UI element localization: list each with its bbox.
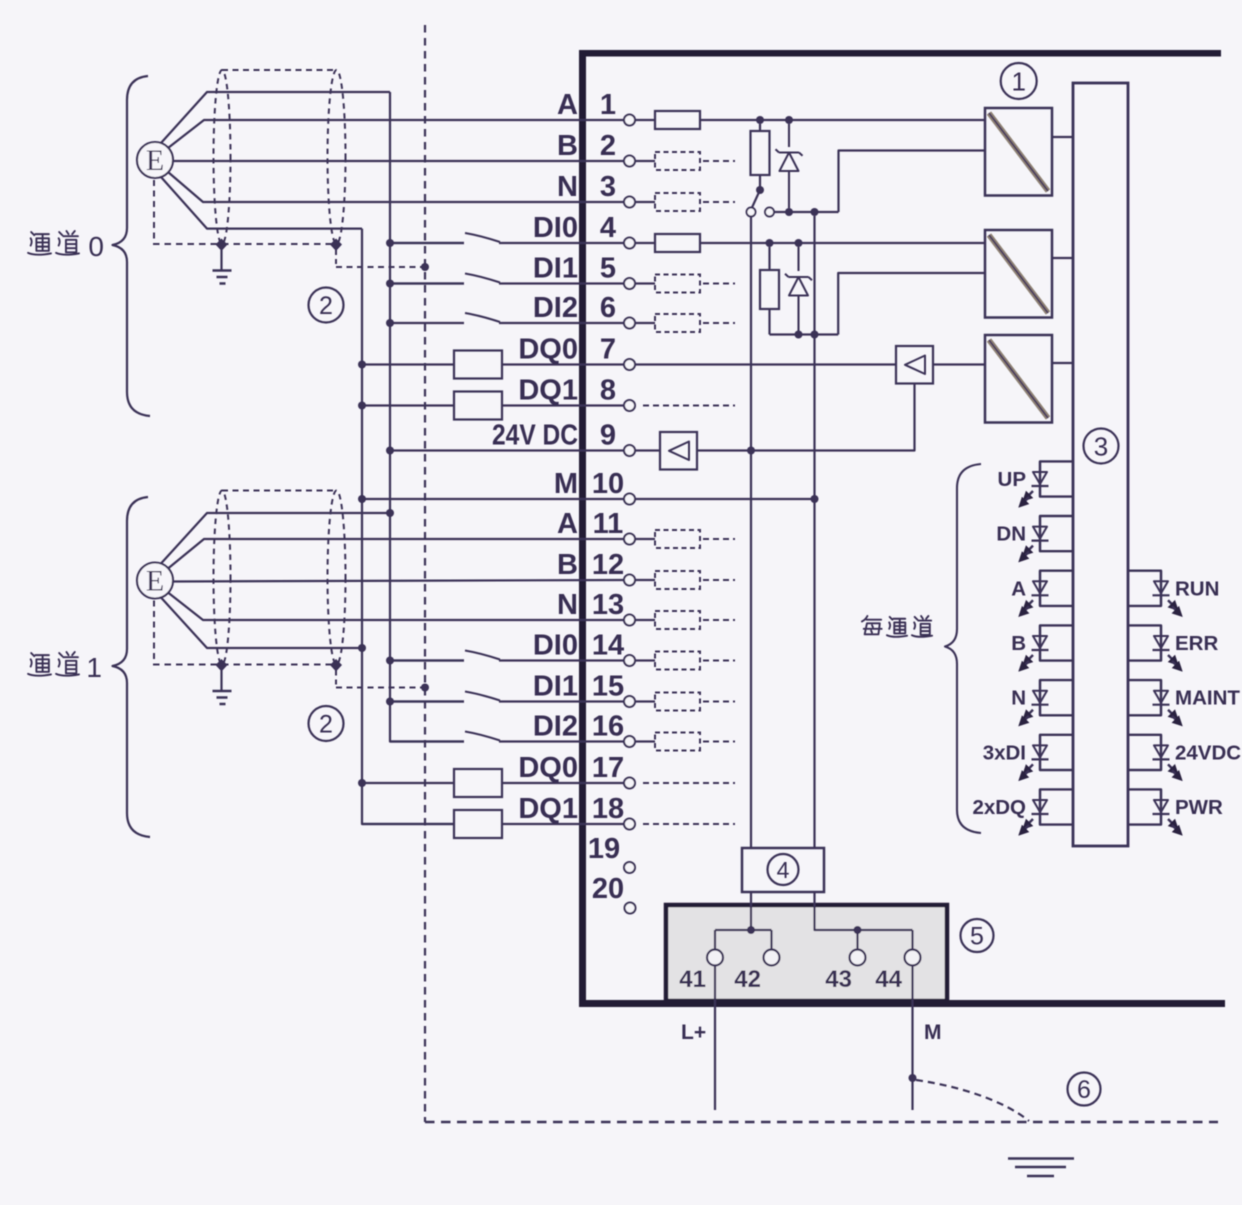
cable shield top dashed line (ch1) [222, 490, 337, 492]
svg-text:2xDQ: 2xDQ [972, 796, 1026, 819]
ground lead (ch1) [220, 671, 222, 691]
terminating resistor R2 ch0-DI [768, 247, 770, 270]
cable shield top dashed line (ch0) [222, 69, 337, 71]
svg-text:5: 5 [600, 253, 616, 285]
pin 19 terminal [624, 862, 635, 873]
jumper contact left ch0 [747, 208, 756, 217]
wire L+ lead [714, 966, 716, 1111]
pin 9 terminal [624, 445, 635, 456]
junction pin1/zener1 [785, 116, 793, 124]
junction common/rail2 [811, 208, 819, 216]
svg-text:DI1: DI1 [533, 671, 578, 703]
LED 3xDI (left) [1040, 735, 1073, 770]
junction supply rail y=283.5 [386, 280, 394, 288]
pin 7 terminal [624, 359, 635, 370]
circled 2 (ch0 shield note) [309, 288, 344, 323]
wire network2 to isolator2 lower input [838, 273, 985, 335]
brace per-channel LEDs [945, 464, 981, 833]
input resistor pin 11 (dashed box) [635, 538, 655, 540]
svg-text:DI2: DI2 [533, 292, 578, 324]
cable shield ellipse left (ch0) [214, 70, 231, 244]
circled 1 (isolation note) [1001, 63, 1037, 99]
svg-text:L+: L+ [681, 1021, 706, 1044]
ground symbol (ch1) [213, 691, 232, 704]
dashed shield link vertical (ch1) [335, 671, 337, 688]
dashed shield-bus vertical line [424, 25, 426, 1122]
svg-text:DQ1: DQ1 [518, 793, 578, 825]
junction shield link / bus (ch0) [421, 263, 429, 271]
svg-text:1: 1 [86, 652, 102, 683]
pin 17 terminal [624, 778, 635, 789]
svg-text:44: 44 [875, 966, 902, 993]
svg-text:DI2: DI2 [533, 711, 578, 743]
svg-text:N: N [1011, 687, 1026, 710]
svg-text:0: 0 [88, 231, 104, 262]
pin 12 terminal [624, 575, 635, 586]
junction pin4/R2 [766, 239, 774, 247]
dashed shield link horizontal (ch0) [336, 266, 425, 268]
svg-text:3xDI: 3xDI [983, 741, 1026, 764]
svg-text:N: N [557, 171, 578, 203]
svg-text:M: M [554, 468, 578, 500]
wire encoder1 return fan [161, 598, 362, 649]
LED RUN (right) [1128, 571, 1161, 606]
junction supply rail y=660.5 [386, 657, 394, 665]
pin 18 terminal [624, 819, 635, 830]
zener diode Z2 [797, 247, 799, 271]
switch contact DI0 ch0 [390, 242, 464, 244]
LED 24VDC (right) [1128, 735, 1161, 770]
output driver DQ0 (triangle box) [896, 346, 933, 384]
shield tap diamond right (ch1) [330, 659, 342, 672]
junction zener2 bottom [795, 331, 803, 339]
input resistor pin 3 (dashed box) [635, 201, 655, 203]
ground lead (ch0) [220, 250, 222, 270]
label 通道 0 [28, 232, 51, 255]
terminal 41 [707, 950, 723, 966]
junction zener1 bottom [785, 208, 793, 216]
wire encoder1 A to pin11 [168, 539, 624, 569]
pin 8 terminal [624, 400, 635, 411]
svg-text:15: 15 [592, 671, 624, 703]
svg-text:1: 1 [600, 89, 616, 121]
label 每通道 [862, 616, 882, 634]
junction pin1/R-term [756, 116, 764, 124]
LED PWR (right) [1128, 789, 1161, 824]
pin 14 terminal [624, 655, 635, 666]
pin 11 terminal [624, 534, 635, 545]
svg-text:17: 17 [592, 752, 624, 784]
input resistor pin 14 (dashed box) [635, 659, 655, 661]
svg-text:ERR: ERR [1175, 632, 1218, 655]
wire encoder1 B to pin12 [173, 580, 624, 582]
svg-text:B: B [557, 549, 578, 581]
wire isolator1 output [1052, 136, 1073, 138]
wire 24VDC row (pin9) outside [390, 449, 624, 451]
dashed stub pin 18 [643, 823, 735, 825]
shield tap diamond left (ch0) [216, 239, 228, 252]
input resistor pin 2 (dashed box) [635, 160, 655, 162]
svg-text:7: 7 [600, 334, 616, 366]
input resistor pin 12 (dashed box) [635, 579, 655, 581]
shield tap diamond left (ch1) [216, 659, 228, 672]
svg-text:9: 9 [600, 420, 616, 452]
svg-text:5: 5 [970, 923, 984, 951]
wire encoder1 supply fan [161, 513, 390, 564]
junction pin10/rail2 [811, 495, 819, 503]
shield tap diamond right (ch0) [330, 239, 342, 252]
wire pin7 internal [635, 363, 896, 365]
svg-text:13: 13 [592, 589, 624, 621]
svg-text:PWR: PWR [1175, 796, 1223, 819]
junction pin9/rail1 [747, 447, 755, 455]
output driver 24VDC (triangle box) [660, 432, 697, 470]
LED N (left) [1040, 680, 1073, 715]
switch contact DI1 ch0 [390, 282, 464, 284]
24V supply rail (vertical) [390, 92, 464, 742]
switch contact DI0 ch1 [390, 659, 464, 661]
wire encoder1 N to pin13 [168, 593, 624, 621]
dashed stub pin 17 [643, 782, 735, 784]
wire encoder0 return fan [161, 177, 362, 229]
isolation barrier block 1 [985, 108, 1052, 196]
terminal 42 [764, 950, 780, 966]
wire pin1 internal to isolator 1 [700, 119, 985, 121]
wire network2 bottom bus [770, 333, 839, 335]
zener diode Z1 ch0 [788, 124, 790, 147]
LED 2xDQ (left) [1040, 789, 1073, 824]
junction return rail y=364.5 [358, 361, 366, 369]
input resistor pin 6 (dashed box) [635, 322, 655, 324]
input resistor pin 1 (solid) [635, 119, 655, 121]
pin 10 terminal [624, 494, 635, 505]
pin 16 terminal [624, 736, 635, 747]
encoder E (channel 1) [137, 563, 173, 599]
svg-text:18: 18 [592, 793, 624, 825]
encoder E (channel 0) [137, 142, 173, 178]
svg-text:M: M [924, 1021, 942, 1044]
circled 5 (terminal block note) [961, 919, 994, 952]
pin 6 terminal [624, 318, 635, 329]
wire encoder0 A to pin1 [168, 120, 624, 148]
svg-text:10: 10 [592, 468, 624, 500]
LED MAINT (right) [1128, 680, 1161, 715]
svg-text:1: 1 [1011, 66, 1025, 96]
shield dashed bottom line (ch1) [153, 664, 340, 666]
svg-text:UP: UP [998, 468, 1026, 491]
label 通道 1 [28, 653, 51, 676]
wire encoder0 supply fan [161, 92, 390, 143]
wire block4 to 43/44 split [815, 892, 913, 949]
internal rail 1 (24V) to block4 [750, 217, 752, 849]
svg-text:42: 42 [734, 966, 761, 993]
LED ERR (right) [1128, 625, 1161, 660]
svg-text:E: E [146, 565, 164, 598]
terminal 44 [905, 950, 921, 966]
junction return rail y=405.5 [358, 402, 366, 410]
shield dashed bottom line (ch0) [153, 243, 340, 245]
svg-text:2: 2 [319, 292, 333, 320]
wire M row (pin10) outside [362, 498, 624, 500]
svg-text:4: 4 [777, 857, 790, 883]
cable shield ellipse right (ch0) [328, 70, 346, 244]
wire pin9 to driver supply riser [697, 384, 915, 451]
load resistor DQ1 ch0 [362, 404, 454, 406]
dashed shield-bus bottom line [425, 1121, 1218, 1123]
svg-text:20: 20 [592, 873, 624, 905]
load resistor DQ0 ch1 [362, 782, 454, 784]
svg-text:6: 6 [600, 292, 616, 324]
LED UP (left) [1040, 461, 1073, 496]
dashed lead below encoder0 [153, 180, 155, 242]
circled 3 (logic block) [1084, 429, 1119, 464]
LED B (left) [1040, 625, 1073, 660]
terminating resistor R-term ch0 [759, 124, 761, 131]
earth symbol bottom [1008, 1159, 1074, 1177]
power terminal block 5 (gray) [666, 905, 947, 1001]
ground symbol (ch0) [213, 271, 232, 284]
pin 2 terminal [624, 156, 635, 167]
junction return rail y=783 [358, 779, 366, 787]
supply block 4 [742, 848, 824, 892]
input resistor pin 16 (dashed box) [635, 740, 655, 742]
circled 2 (ch1 shield note) [309, 706, 344, 741]
svg-text:4: 4 [600, 212, 616, 244]
input resistor pin 15 (dashed box) [635, 700, 655, 702]
logic block rectangle [1073, 83, 1128, 846]
internal rail 2 (M) to block4 [813, 216, 815, 848]
svg-text:43: 43 [825, 966, 852, 993]
switch contact DI2 ch0 [390, 322, 464, 324]
svg-text:DI0: DI0 [533, 630, 578, 662]
isolation barrier block 2 [985, 230, 1052, 318]
svg-text:11: 11 [593, 508, 624, 540]
jumper contact right ch0 [765, 208, 774, 217]
wire encoder0 B to pin2 [173, 160, 624, 162]
svg-text:DN: DN [996, 523, 1026, 546]
junction network2/rail2 [811, 331, 819, 339]
brace channel 0 [113, 76, 151, 416]
circled 4 (supply block) [768, 854, 799, 885]
junction supply rail y=243 [386, 239, 394, 247]
switch contact DI1 ch1 [390, 700, 464, 702]
svg-text:3: 3 [1094, 431, 1108, 461]
dashed shield link horizontal (ch1) [336, 687, 425, 689]
pin 5 terminal [624, 278, 635, 289]
circled 6 (earth note) [1068, 1073, 1101, 1106]
svg-text:19: 19 [588, 833, 620, 865]
module enclosure top edge [579, 50, 1221, 57]
wire pin4 internal to isolator 2 [700, 242, 985, 244]
wire jumper common ch0 [774, 211, 839, 213]
pin 13 terminal [624, 615, 635, 626]
pin 1 terminal [624, 115, 635, 126]
load resistor DQ0 ch0 [362, 363, 454, 365]
wire network1 to isolator1 lower input [839, 151, 986, 213]
wire M lead [911, 966, 913, 1111]
svg-text:6: 6 [1077, 1076, 1091, 1104]
wire pin10 internal [635, 498, 815, 500]
LED DN (left) [1040, 516, 1073, 551]
junction return rail y=499 [358, 495, 366, 503]
svg-text:41: 41 [679, 966, 706, 993]
pin 3 terminal [624, 197, 635, 208]
svg-text:24V DC: 24V DC [492, 420, 578, 452]
wire encoder0 N to pin3 [168, 172, 624, 202]
wire isolator2 output [1052, 257, 1073, 259]
cable shield ellipse left (ch1) [214, 491, 231, 665]
svg-text:3: 3 [600, 171, 616, 203]
svg-text:14: 14 [592, 630, 624, 662]
svg-text:16: 16 [592, 711, 624, 743]
terminal 43 [850, 950, 866, 966]
svg-text:12: 12 [592, 549, 624, 581]
input resistor pin 4 (solid) [635, 242, 655, 244]
svg-text:DQ1: DQ1 [518, 375, 578, 407]
isolation barrier block 3 [985, 335, 1052, 423]
junction shield link / bus (ch1) [421, 684, 429, 692]
svg-text:24VDC: 24VDC [1175, 741, 1241, 764]
pin 20 terminal [625, 903, 636, 914]
junction supply rail y=513 [386, 509, 394, 517]
svg-text:DI1: DI1 [533, 253, 578, 285]
switch contact DI2 ch1 [390, 740, 464, 742]
pin 15 terminal [624, 696, 635, 707]
wire isolator3 output [1052, 362, 1073, 364]
svg-text:B: B [1011, 632, 1026, 655]
junction supply rail y=701.5 [386, 698, 394, 706]
svg-text:DQ0: DQ0 [518, 752, 578, 784]
svg-text:8: 8 [600, 375, 616, 407]
M return rail (vertical) [362, 229, 454, 824]
junction supply rail y=450.5 [386, 447, 394, 455]
cable shield ellipse right (ch1) [328, 491, 346, 665]
junction supply rail y=323 [386, 319, 394, 327]
junction pin4/zener2 [795, 239, 803, 247]
svg-text:2: 2 [319, 711, 333, 739]
svg-text:A: A [557, 508, 578, 540]
svg-text:DI0: DI0 [533, 212, 578, 244]
wire driver to isolator 3 [933, 363, 985, 365]
load resistor DQ1 ch1 [362, 823, 454, 825]
svg-text:2: 2 [600, 130, 616, 162]
input resistor pin 5 (dashed box) [635, 282, 655, 284]
svg-text:DQ0: DQ0 [518, 334, 578, 366]
junction M/earth curve [909, 1074, 917, 1082]
junction return rail y=648 [358, 644, 366, 652]
input resistor pin 13 (dashed box) [635, 619, 655, 621]
dashed earth curve [916, 1080, 1029, 1121]
svg-text:A: A [1011, 577, 1026, 600]
svg-text:E: E [146, 144, 164, 177]
LED A (left) [1040, 571, 1073, 606]
svg-text:N: N [557, 589, 578, 621]
module enclosure left edge [579, 50, 586, 1007]
pin 4 terminal [624, 238, 635, 249]
module enclosure bottom edge [579, 1000, 1225, 1007]
dashed stub pin 8 [643, 405, 735, 407]
wire pin9 internal [635, 449, 660, 451]
svg-text:MAINT: MAINT [1175, 687, 1240, 710]
svg-text:A: A [557, 89, 578, 121]
svg-text:RUN: RUN [1175, 577, 1219, 600]
brace channel 1 [113, 497, 151, 837]
dashed shield link vertical (ch0) [335, 250, 337, 267]
svg-text:B: B [557, 130, 578, 162]
dashed lead below encoder1 [153, 601, 155, 663]
wire block4 to 41/42 split [750, 892, 752, 930]
